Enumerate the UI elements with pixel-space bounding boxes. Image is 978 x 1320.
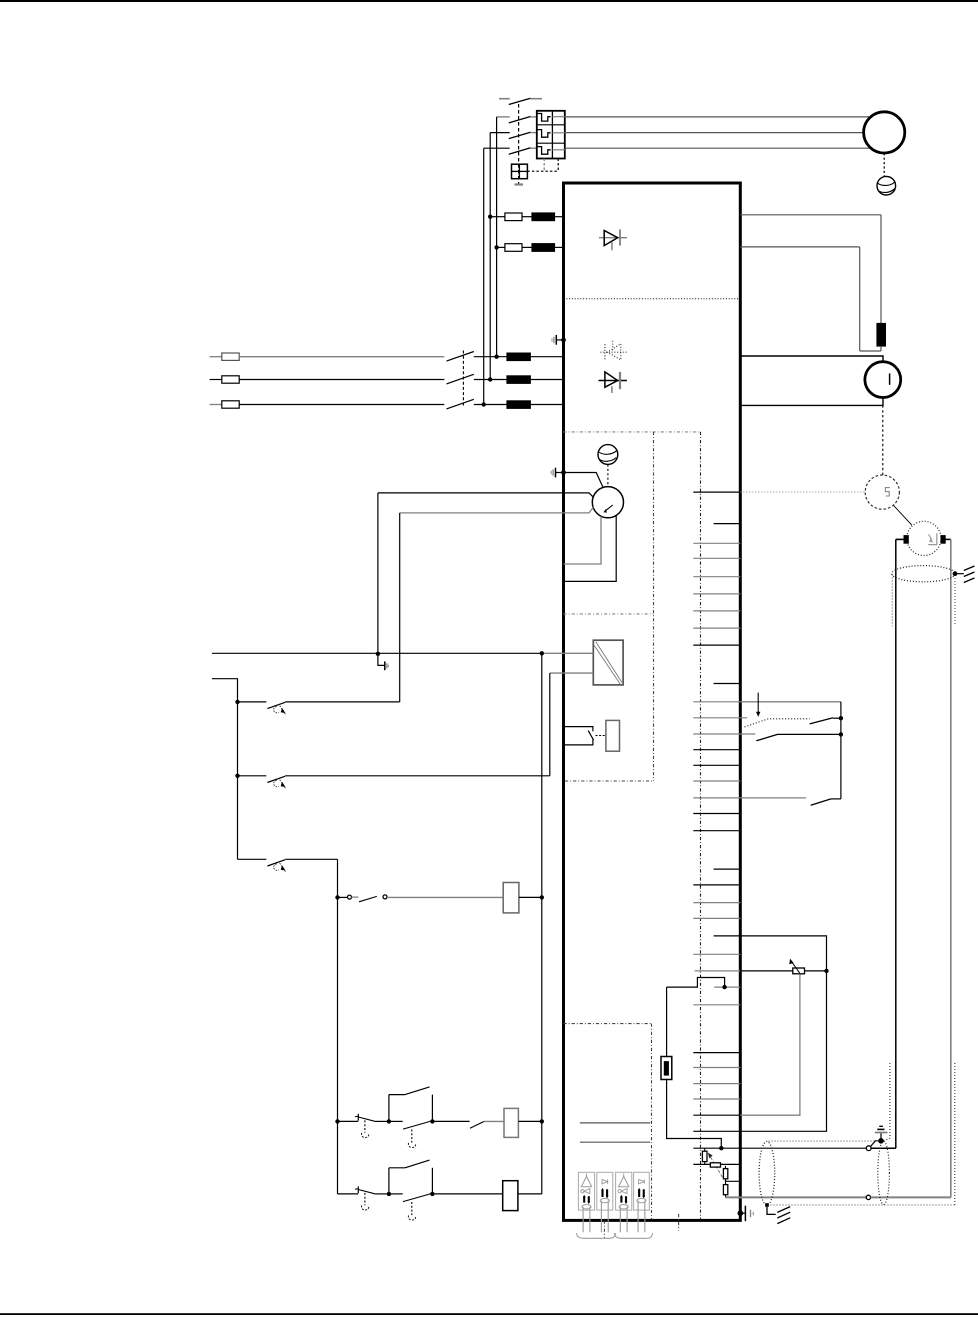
disconnect Q1 pole3 blade bbox=[509, 148, 531, 154]
node rail/row1 bbox=[335, 1119, 339, 1123]
tacho-encoder shaft bbox=[894, 506, 912, 526]
pump shaft (dashed) bbox=[607, 464, 609, 486]
terminal X14 bbox=[693, 749, 740, 751]
thermal switch S1 stub bbox=[238, 701, 267, 703]
resistor R4 bbox=[723, 1169, 727, 1179]
chassis ground 2 bar 2 bbox=[777, 1212, 790, 1218]
control bus lower bbox=[541, 1121, 543, 1194]
pump wire left A riser bbox=[377, 493, 379, 654]
aux wire 2 bbox=[497, 246, 505, 248]
tacho G1 glyph bbox=[885, 488, 889, 496]
node S1 bbox=[235, 700, 239, 704]
relay K1 link (dashed) bbox=[596, 735, 606, 737]
io card 2 cable bbox=[601, 1201, 608, 1233]
shield pigtail bbox=[870, 1141, 878, 1147]
analog return wire (gray) bbox=[726, 1196, 867, 1198]
node L1/line1 bbox=[494, 355, 498, 359]
disconnect Q1 handle blade bbox=[509, 98, 531, 104]
setpoint wire mid bbox=[740, 970, 793, 972]
shield drain left (dotted) bbox=[891, 575, 893, 627]
limit switch bus drop bbox=[840, 702, 842, 799]
pump wire left B riser bbox=[399, 513, 401, 702]
overload relay F1 divider bbox=[551, 111, 553, 159]
io card 2 dig symbol bbox=[602, 1179, 608, 1183]
node control feed bbox=[540, 651, 544, 655]
coil K4 bbox=[503, 1181, 518, 1211]
limit contact 2 wire bbox=[778, 733, 841, 735]
adjust arrow bbox=[708, 1153, 723, 1178]
terminal X8 bbox=[693, 627, 740, 629]
line3 stub bbox=[210, 404, 222, 406]
analog return wire b (gray) bbox=[871, 1196, 951, 1198]
chassis ground bar 2 bbox=[964, 572, 975, 577]
converter T1 input wire (gray) bbox=[542, 652, 594, 654]
corner EMC clamp stub bbox=[740, 1212, 745, 1214]
line1 wire bbox=[239, 356, 444, 358]
overload relay F1 pole 2 through-wire bbox=[552, 132, 564, 134]
thermal switch S3 stub bbox=[238, 858, 267, 860]
thermal switch S1 hook bbox=[274, 706, 279, 712]
thermal switch S3 blade bbox=[267, 860, 285, 866]
cable shield ellipse left bbox=[759, 1141, 775, 1205]
terminal X34 bbox=[693, 1130, 740, 1132]
thermal switch S2 stub bbox=[238, 775, 267, 777]
choke L2a bbox=[507, 353, 531, 361]
terminal X31 bbox=[693, 1083, 740, 1085]
trip unit cross vertical bbox=[518, 164, 520, 179]
coil K3 bbox=[504, 1108, 518, 1137]
encoder wire bottom bbox=[871, 1147, 896, 1149]
thyristor V1 lead bbox=[599, 237, 627, 239]
io compartment right (dash-dot) bbox=[651, 1024, 653, 1219]
row2 wire a bbox=[374, 1193, 389, 1195]
resistor R2 stub b bbox=[704, 1162, 706, 1165]
pump M3 arrow bbox=[603, 505, 612, 513]
relay K1 contact stub top bbox=[564, 727, 593, 732]
setpoint wire return bbox=[740, 971, 826, 1131]
earth bar wide (gray) bbox=[875, 1132, 888, 1134]
row1 parallel branch riser right bbox=[431, 1095, 433, 1122]
jog wire over rail bbox=[667, 978, 725, 988]
coil K4 return bbox=[518, 1193, 542, 1195]
disconnect Q1 link (dashed) bbox=[518, 104, 520, 184]
feeder wire L2 riser bbox=[489, 133, 491, 380]
terminal X16 bbox=[693, 780, 740, 782]
terminal X29 bbox=[693, 1052, 740, 1054]
converter T1 wire 2 (gray) bbox=[550, 672, 594, 674]
NC button S6 bar bbox=[357, 1186, 359, 1193]
encoder cable shield (dotted ellipse) bbox=[892, 566, 955, 582]
field wire F2 drop bbox=[859, 247, 861, 351]
trip unit box bbox=[512, 164, 528, 179]
node row2 a bbox=[387, 1192, 391, 1196]
io card 4 signal bars bbox=[638, 1188, 645, 1199]
io card 4 cable bbox=[638, 1201, 645, 1233]
overload relay F1 trip link horizontal (dashed) bbox=[527, 170, 558, 172]
terminal X15 bbox=[693, 764, 740, 766]
page bottom rule bbox=[0, 1313, 978, 1315]
io compartment top (dash-dot) bbox=[564, 1023, 652, 1025]
NC button S5 tick bbox=[355, 1115, 358, 1118]
io card 1 cable bbox=[583, 1207, 590, 1233]
control bus riser bbox=[541, 653, 543, 1121]
relay K1 contact blade bbox=[588, 731, 593, 741]
contact K3a blade bbox=[405, 1160, 430, 1168]
coil K3 feed (gray) bbox=[484, 1120, 504, 1122]
terminal X2 bbox=[714, 523, 741, 525]
tacho feedback (dotted) bbox=[740, 491, 865, 493]
motor M1 bbox=[864, 112, 905, 153]
terminal X9 bbox=[693, 644, 740, 646]
motor M1 shaft (dashed) bbox=[883, 153, 885, 176]
terminal X25 bbox=[693, 953, 740, 955]
node limit 1 bbox=[839, 716, 843, 720]
limit contact 1 alternate blade (dotted) bbox=[744, 719, 809, 727]
line1 fuse bbox=[222, 353, 239, 360]
terminal X10 bbox=[714, 683, 741, 685]
node limit 2 bbox=[839, 732, 843, 736]
resistor R5 bbox=[723, 1185, 727, 1195]
disconnect Q1 handle stub left bbox=[499, 98, 510, 100]
pump wire bottom D bbox=[564, 515, 617, 581]
node jog bbox=[722, 985, 726, 989]
thermal switch S2 out wire bbox=[285, 775, 550, 777]
io card 2 socket bbox=[600, 1198, 609, 1202]
pump M3 bbox=[592, 487, 623, 518]
field wire F2 bbox=[740, 246, 859, 248]
terminal X18 bbox=[693, 813, 740, 815]
pushbutton S4 stub bbox=[352, 896, 359, 898]
fan B2 blade 2 bbox=[599, 458, 616, 462]
thermal switch S1 out wire bbox=[285, 701, 400, 703]
armature wire A2 bbox=[740, 397, 883, 405]
coil K2 return wire bbox=[519, 896, 542, 898]
fuse F4 lead bbox=[666, 987, 668, 1056]
disconnect Q1 pole3 stub bbox=[484, 147, 510, 149]
row2 parallel branch riser left bbox=[388, 1168, 390, 1194]
cable marker stub 2 (dash-dot) bbox=[678, 1214, 680, 1231]
field bottom link bbox=[860, 350, 881, 352]
field wire F1 drop b bbox=[880, 346, 882, 351]
node enclosure corner PE bbox=[738, 1210, 744, 1216]
contact S5b actuator (dashed) bbox=[411, 1130, 413, 1143]
io card 3 socket bbox=[619, 1205, 628, 1209]
overload relay F1 heater 3 bbox=[537, 147, 550, 155]
node fuse return bbox=[719, 1146, 723, 1150]
pump wire bottom C bbox=[564, 516, 602, 564]
io compartment wire 1 (gray) bbox=[580, 1122, 650, 1124]
disconnect Q1 ground tick bbox=[515, 183, 524, 185]
EMC clamp below node mid bar bbox=[386, 663, 388, 668]
resistor R4 link bbox=[726, 1179, 741, 1182]
resistor R5 stub b bbox=[725, 1195, 727, 1198]
coil K2 bbox=[503, 883, 519, 913]
io card 2 outline bbox=[597, 1172, 613, 1210]
io card 4 outline bbox=[634, 1172, 650, 1210]
NC button S5 actuator (dashed) bbox=[364, 1120, 366, 1132]
contact K4a blade bbox=[405, 1087, 430, 1095]
EMC clamp tall bar bbox=[555, 468, 557, 478]
row1 wire a bbox=[374, 1120, 389, 1122]
feeder wire L3 riser bbox=[483, 148, 485, 404]
terminal X22 bbox=[693, 902, 740, 904]
terminal X17 bbox=[693, 797, 806, 799]
disconnect Q1 handle stub right bbox=[530, 98, 542, 100]
disconnect Q1 pole1 out bbox=[530, 116, 537, 118]
corner EMC clamp small bar bbox=[752, 1212, 754, 1216]
terminal X35 bbox=[693, 1147, 740, 1149]
thyristor V3 cathode bar bbox=[619, 372, 621, 389]
limit contact 1 blade bbox=[810, 718, 833, 724]
potentiometer R1 arrow bbox=[789, 959, 801, 975]
disconnect Q1 pole2 stub bbox=[490, 132, 510, 134]
control wire 2 bbox=[212, 679, 238, 860]
limit contact 3 stub bbox=[831, 798, 841, 800]
limit actuation arrow bbox=[756, 693, 760, 717]
terminal X36 bbox=[693, 1163, 740, 1165]
choke L1a bbox=[532, 213, 555, 221]
resistor R5 stub bbox=[725, 1181, 727, 1184]
terminal-strip rail (dash-dot) bbox=[700, 432, 702, 1219]
shield bond square bbox=[765, 1203, 769, 1207]
terminal X6 bbox=[693, 593, 740, 595]
EMC clamp mid bar bbox=[552, 469, 554, 476]
pushbutton S4 terminal 1 bbox=[348, 895, 352, 899]
converter T1 diagonal 1 bbox=[596, 642, 622, 683]
terminal X7 bbox=[693, 610, 740, 612]
control feed wire bbox=[212, 652, 542, 654]
coil K3 return bbox=[518, 1120, 541, 1122]
pump wire top bbox=[564, 473, 604, 489]
row1 parallel branch riser left bbox=[388, 1095, 390, 1122]
node pump feed bbox=[376, 652, 380, 656]
encoder wire right drop (gray) bbox=[950, 539, 952, 1197]
choke L2b bbox=[507, 376, 531, 384]
fuse F4 element bbox=[664, 1062, 668, 1076]
limit switch bus wire (gray) bbox=[740, 701, 841, 703]
line2 fuse bbox=[222, 376, 239, 383]
thermal switch S2 blade bbox=[267, 776, 285, 782]
contact S6b actuator (dashed) bbox=[411, 1202, 413, 1215]
potentiometer R3 bbox=[710, 1163, 720, 1167]
analog return connector bbox=[866, 1195, 870, 1199]
terminal X23 bbox=[693, 917, 740, 919]
fan B2 bbox=[598, 445, 618, 465]
pump wire left A horizontal bbox=[378, 493, 593, 497]
io card 3 signal bars bbox=[620, 1195, 627, 1205]
motor M2 bbox=[865, 362, 901, 398]
encoder terminal left bbox=[904, 536, 908, 544]
line1 wire b bbox=[474, 356, 507, 358]
thyristor V2 triangle (dotted) bbox=[607, 344, 621, 360]
relay K1 contact stub bottom bbox=[564, 740, 593, 745]
terminal X3 bbox=[693, 542, 740, 544]
io card 1 socket bbox=[582, 1205, 591, 1209]
resistor R2 stub bbox=[704, 1148, 706, 1151]
terminal X33 bbox=[693, 1114, 740, 1116]
row2 parallel branch riser right bbox=[431, 1168, 433, 1194]
field-supply compartment right (dash-dot) bbox=[653, 432, 655, 781]
terminal X30 bbox=[693, 1067, 740, 1069]
switch Q2 link (dashed) bbox=[462, 351, 464, 407]
io card 4 socket bbox=[637, 1198, 646, 1202]
chassis ground bar 3 bbox=[964, 578, 975, 583]
row2 lower wire b bbox=[429, 1193, 432, 1195]
disconnect Q1 pole1 blade bbox=[509, 117, 531, 123]
page top rule bbox=[0, 0, 978, 2]
io card 3 outline bbox=[616, 1172, 632, 1210]
io card 1 signal bars bbox=[583, 1195, 590, 1205]
terminal X1 bbox=[693, 491, 740, 493]
line3 fuse bbox=[222, 401, 239, 408]
line2 wire bbox=[239, 379, 444, 381]
terminal X27 bbox=[714, 986, 740, 988]
thyristor V1 gate bbox=[611, 242, 613, 250]
io card 4 dig symbol bbox=[639, 1179, 645, 1183]
field winding L3 bbox=[877, 323, 886, 346]
disconnect Q1 pole2 out bbox=[530, 132, 537, 134]
fuse F4 body bbox=[661, 1057, 672, 1080]
chassis ground bar 1 bbox=[964, 566, 975, 571]
cable lead-in bracket 2 bbox=[614, 1233, 652, 1238]
NC button S6 hook bbox=[362, 1205, 369, 1210]
section divider (dotted) bbox=[564, 298, 741, 300]
switch Q2 pole3 blade bbox=[447, 399, 474, 409]
node row1 a bbox=[387, 1119, 391, 1123]
resistor R2 bbox=[702, 1151, 707, 1161]
converter T1 diagonal 2 bbox=[594, 645, 620, 684]
line3 wire b bbox=[474, 404, 507, 406]
row2 stub bbox=[338, 1193, 359, 1195]
encoder G2 glyph arrow bbox=[929, 534, 934, 542]
shield drain right (dotted) bbox=[954, 578, 956, 626]
shield drain left bottom (dotted) bbox=[884, 1063, 890, 1141]
line2 wire c bbox=[530, 379, 563, 381]
disconnect Q1 pole1 stub bbox=[497, 116, 510, 118]
overload relay F1 pole 3 through-wire bbox=[552, 149, 564, 151]
io card 1 amp symbol bbox=[581, 1174, 591, 1187]
terminal X32 bbox=[693, 1098, 740, 1100]
thermal switch S3 arrow bbox=[280, 863, 286, 872]
node shield ground bbox=[953, 571, 958, 576]
row1 lower wire bbox=[389, 1120, 403, 1122]
line3 wire c bbox=[530, 404, 563, 406]
terminal X12 bbox=[693, 717, 747, 719]
aux wire 2b bbox=[522, 246, 532, 248]
line1 stub bbox=[210, 356, 222, 358]
shield ground stub bbox=[955, 573, 964, 575]
disconnect Q1 pole2 blade bbox=[509, 132, 531, 138]
aux wire 2c bbox=[555, 246, 564, 248]
converter T1 body bbox=[593, 640, 623, 685]
thyristor V2 cathode bar (dotted) bbox=[604, 344, 606, 361]
thyristor V2 lead (dotted) bbox=[600, 351, 627, 353]
shield link top (dotted) bbox=[769, 1140, 878, 1142]
NC button S5 hook bbox=[362, 1133, 369, 1138]
line1 wire c bbox=[530, 356, 563, 358]
thermal switch S2 hook bbox=[274, 780, 279, 786]
fan B1 blade 1 bbox=[878, 182, 895, 186]
motor feed T1 bbox=[565, 116, 871, 118]
terminal X5 bbox=[693, 576, 740, 578]
EMC clamp at enclosure left bbox=[556, 472, 564, 474]
contact S6b hook bbox=[408, 1215, 415, 1220]
io card 1 aux glyph bbox=[581, 1189, 590, 1194]
feeder wire L1 riser bbox=[496, 117, 498, 357]
EMC clamp upper mid bar bbox=[553, 337, 555, 343]
terminal X21 bbox=[693, 884, 740, 886]
encoder G2 (dotted circle) bbox=[907, 521, 941, 555]
disconnect Q1 pole3 out bbox=[530, 147, 537, 149]
pushbutton S4 wire bbox=[338, 896, 348, 898]
encoder wire connector bbox=[866, 1146, 871, 1151]
overload relay F1 trip link right (dashed) bbox=[557, 159, 559, 172]
limit contact 2 blade bbox=[756, 734, 777, 740]
wiper wire (gray) bbox=[740, 974, 800, 1115]
EMC clamp below node bbox=[378, 656, 385, 666]
limit contact 3 blade bbox=[811, 799, 831, 805]
choke L1b bbox=[532, 244, 555, 252]
shield link bottom (dotted) bbox=[771, 1204, 955, 1206]
terminal X11 bbox=[693, 701, 740, 703]
armature wire A1 bbox=[740, 356, 883, 362]
contact K2a blade bbox=[470, 1122, 484, 1129]
io compartment wire 2 (gray) bbox=[580, 1141, 650, 1143]
row2 lower wire bbox=[389, 1193, 403, 1195]
fuse F4 lead b bbox=[667, 1080, 722, 1149]
node enclosure PE bbox=[561, 470, 566, 475]
node row1 b bbox=[430, 1119, 434, 1123]
cable shield ellipse right bbox=[878, 1141, 890, 1204]
shield bond drop bbox=[767, 1207, 776, 1215]
thyristor V3 gate bbox=[611, 386, 613, 393]
io card 2 signal bars bbox=[601, 1188, 608, 1199]
node L1/aux2 bbox=[494, 245, 498, 249]
coil K4 feed bbox=[432, 1193, 502, 1195]
NC button S6 tick bbox=[355, 1188, 358, 1191]
fan B2 blade 1 bbox=[599, 451, 617, 455]
node S2 bbox=[235, 774, 239, 778]
overload relay F1 body bbox=[537, 111, 565, 159]
node setpoint bbox=[824, 969, 828, 973]
thermal switch S3 hook bbox=[274, 864, 279, 870]
switch Q2 pole2 blade bbox=[447, 374, 474, 384]
fan B1 blade 2 bbox=[878, 189, 895, 193]
row1 parallel top wire bbox=[389, 1094, 405, 1096]
pushbutton S4 terminal 2 bbox=[383, 895, 387, 899]
overload relay F1 trip link left (dashed) bbox=[543, 159, 545, 172]
coil K2 feed wire (gray) bbox=[387, 896, 503, 898]
cable marker stub (dash-dot) bbox=[603, 1221, 605, 1238]
node rail/S4 bbox=[335, 895, 339, 899]
fuse F3 bbox=[505, 244, 522, 252]
io card 3 cable bbox=[620, 1207, 627, 1233]
chassis ground 2 bar 3 bbox=[777, 1218, 790, 1224]
overload relay F1 row divider 1 bbox=[537, 124, 565, 126]
EMC clamp upper tall bar bbox=[555, 335, 557, 345]
shield ground riser bbox=[880, 1133, 882, 1141]
node enclosure PE upper bbox=[561, 338, 566, 343]
aux wire 1c bbox=[555, 216, 564, 218]
drive enclosure outline bbox=[564, 183, 741, 1220]
fan B1 bbox=[877, 176, 896, 195]
motor feed T3 bbox=[565, 147, 871, 149]
NC button S6 blade bbox=[358, 1190, 374, 1194]
overload relay F1 heater 1 bbox=[537, 114, 550, 122]
overload relay F1 heater 2 bbox=[537, 130, 550, 138]
earth bar mid bbox=[877, 1128, 884, 1130]
pushbutton S4 blade bbox=[359, 896, 377, 901]
